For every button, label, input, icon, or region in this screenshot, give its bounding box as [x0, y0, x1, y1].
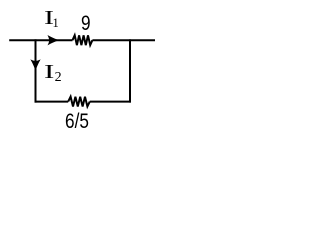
- resistor R2 (6/5 ohm): [68, 97, 90, 107]
- label I1 subscript 1: [53, 17, 59, 30]
- current arrow I1 head: [48, 36, 58, 45]
- wire: left vertical branch: [35, 39, 37, 102]
- label I1: [44, 8, 54, 28]
- resistor R1 (9 ohm): [73, 35, 93, 45]
- wire: bottom-left segment: [35, 101, 69, 103]
- wire: top-left lead: [9, 39, 72, 41]
- label I2 subscript 2: [55, 71, 62, 85]
- wire: top-right lead: [92, 39, 155, 41]
- wire: right vertical branch: [129, 39, 131, 102]
- label I2: [44, 62, 54, 82]
- wire: bottom-right segment: [90, 101, 131, 103]
- current arrow I2 head: [31, 60, 40, 70]
- label 9 (R1 value): [81, 13, 91, 35]
- label 6/5 (R2 value): [65, 111, 89, 133]
